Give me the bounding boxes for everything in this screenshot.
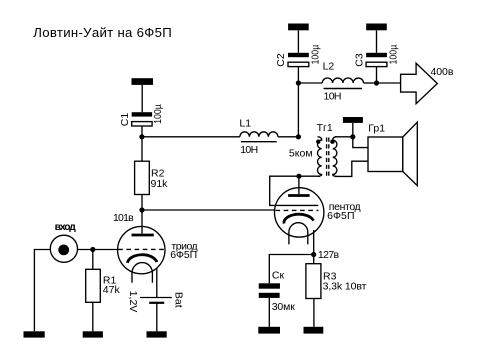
ground (battery) [147, 331, 167, 337]
svg-text:30мк: 30мк [272, 301, 296, 313]
svg-text:Тг1: Тг1 [317, 122, 333, 134]
label L1 [239, 118, 251, 130]
svg-text:вход: вход [55, 222, 77, 233]
primary phase dot [316, 140, 320, 144]
svg-text:100µ: 100µ [310, 44, 321, 64]
label вход [55, 222, 77, 233]
pentode cathode [284, 214, 314, 223]
value 47k [103, 284, 121, 296]
value 1,2V [127, 291, 139, 313]
label R1 [103, 275, 117, 287]
wire L2 to C3 junction [364, 82, 377, 84]
node C1/R2 junction [139, 134, 144, 139]
ground (input) [24, 331, 45, 337]
chassis bar above C2 [288, 24, 309, 31]
svg-text:Ск: Ск [272, 270, 285, 282]
svg-text:Гр1: Гр1 [368, 123, 385, 135]
pentode anode plate [288, 176, 310, 195]
wire C3 bar to C3 [376, 30, 378, 53]
svg-text:47k: 47k [103, 284, 121, 296]
svg-text:100µ: 100µ [388, 44, 399, 64]
transformer core [327, 138, 329, 177]
ground (R1) [83, 331, 103, 337]
svg-text:6Ф5П: 6Ф5П [170, 249, 197, 261]
triode anode plate [132, 210, 154, 235]
pentode V1b envelope [275, 188, 324, 237]
transformer Тг1 primary [318, 137, 322, 176]
svg-text:400в: 400в [431, 66, 454, 78]
wire node up to C2 junction [297, 83, 299, 137]
ground (Ck) [258, 327, 280, 334]
wire triode cathode to battery [156, 268, 158, 298]
svg-text:L2: L2 [323, 61, 335, 73]
label C3 [353, 53, 365, 67]
svg-text:L1: L1 [239, 118, 251, 130]
wire C3 junction to arrow [377, 82, 401, 84]
capacitor C3 [366, 53, 387, 83]
node pentode anode junction [296, 174, 301, 179]
pentode filament [289, 223, 308, 245]
svg-text:100µ: 100µ [153, 104, 164, 124]
node cathode junction [311, 252, 316, 257]
value 91k [151, 178, 169, 190]
svg-text:10Н: 10Н [324, 90, 342, 102]
pentode screen grid [274, 204, 318, 206]
capacitor C1 [132, 112, 152, 137]
title [33, 25, 171, 40]
label триод [171, 240, 197, 252]
wire connector to ground [34, 250, 50, 332]
wire grid rail to pentode [142, 209, 277, 211]
secondary phase dot [330, 140, 334, 144]
svg-text:91k: 91k [151, 178, 169, 190]
label C1 [119, 113, 131, 127]
resistor R2 [135, 137, 150, 210]
value 100µ (C2) [310, 44, 321, 64]
wire junction to L1 [142, 136, 240, 138]
label пентод [329, 201, 361, 213]
label Тг1 [317, 122, 333, 134]
arrow 400v supply [401, 63, 438, 103]
wire L1 to node [278, 136, 299, 138]
label C2 [275, 53, 287, 67]
capacitor Ск [259, 283, 280, 327]
wire secondary top to speaker [335, 136, 353, 138]
capacitor C2 [288, 53, 309, 83]
wire pentode cathode down [313, 230, 315, 255]
value 100µ (C1) [153, 104, 164, 124]
label 127в [318, 249, 340, 261]
chassis bar above C1 [132, 78, 154, 85]
battery Bat [140, 298, 172, 332]
wire C2 bar to C2 [297, 30, 299, 53]
wire cathode junction to Ck [269, 255, 313, 284]
label 101в [113, 212, 134, 224]
input connector [50, 235, 77, 262]
value 5ком [289, 147, 313, 159]
wire C2 junction to L2 [298, 82, 322, 84]
value 30мк [272, 301, 296, 313]
svg-text:1,2V: 1,2V [127, 291, 139, 313]
svg-text:3,3k 10вт: 3,3k 10вт [323, 280, 367, 292]
svg-text:127в: 127в [318, 249, 340, 261]
wire junction to speaker top terminal [353, 137, 368, 148]
node C2/L2 junction [296, 80, 301, 85]
svg-text:Bat: Bat [173, 292, 185, 308]
svg-text:5ком: 5ком [289, 147, 313, 159]
inductor L1 [240, 132, 278, 142]
label R2 [151, 167, 165, 179]
wire connector to triode grid [77, 249, 117, 251]
triode filament [132, 263, 152, 283]
svg-text:C1: C1 [119, 113, 131, 127]
transformer Тг1 secondary [333, 137, 337, 177]
label L2 [323, 61, 335, 73]
label Bat [173, 292, 185, 308]
chassis bar above C3 [366, 24, 387, 31]
triode cathode [127, 255, 156, 263]
chassis bar above speaker [343, 117, 363, 137]
value 100µ (C3) [388, 44, 399, 64]
resistor R3 [306, 255, 321, 327]
label Гр1 [368, 123, 385, 135]
wire secondary bottom to speaker bottom terminal [335, 161, 368, 176]
node triode anode / pentode grid junction [139, 207, 144, 212]
node speaker junction [350, 134, 355, 139]
label R3 [323, 270, 337, 282]
value 10Н (L1) [240, 144, 258, 156]
svg-text:Ловтин-Уайт на 6Ф5П: Ловтин-Уайт на 6Ф5П [33, 25, 171, 40]
svg-text:6Ф5П: 6Ф5П [327, 210, 354, 222]
node L1/C2/Tr1 junction [296, 134, 301, 139]
svg-text:C2: C2 [275, 53, 287, 67]
triode V1a envelope [118, 226, 165, 273]
wire C1 bar to C1 [141, 85, 143, 112]
node R1 junction [90, 247, 95, 252]
inductor L2 [322, 78, 363, 89]
label 6Ф5П (triode) [170, 249, 197, 261]
label 6Ф5П (pentode) [327, 210, 354, 222]
node C3/L2 junction [374, 80, 379, 85]
svg-text:101в: 101в [113, 212, 134, 224]
svg-text:10Н: 10Н [240, 144, 258, 156]
pentode control grid [276, 209, 319, 211]
triode grid [118, 248, 164, 250]
label Ск [272, 270, 285, 282]
value 10Н (L2) [324, 90, 342, 102]
wire anode to screen grid [270, 176, 299, 205]
value 3,3k 10вт [323, 280, 367, 292]
speaker Гр1 [368, 122, 417, 185]
svg-text:C3: C3 [353, 53, 365, 67]
wire anode junction to transformer [299, 175, 320, 177]
label 400в [431, 66, 454, 78]
ground (R3) [304, 327, 324, 334]
resistor R1 [86, 250, 101, 332]
